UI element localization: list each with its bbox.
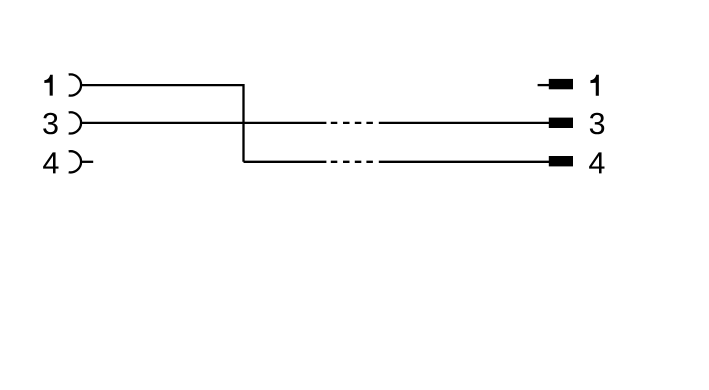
wire: pin 3 row solid segment to right terminal 3 bbox=[379, 122, 550, 124]
label "1" left (drawn glyph) bbox=[44, 75, 52, 96]
label "4" left bbox=[43, 152, 58, 173]
terminal pin 4 (right connector, male blade) bbox=[549, 156, 573, 166]
label "3" left bbox=[43, 113, 57, 135]
wire: left pin 3 solid segment before cable break bbox=[81, 122, 326, 124]
wire: pin 4 row cable-break dashes bbox=[331, 161, 373, 163]
label "1" right (drawn glyph) bbox=[590, 75, 598, 96]
terminal pin 1 (right connector, male blade) bbox=[549, 79, 573, 89]
label "3" right bbox=[590, 113, 604, 135]
wire: left pin 1 horizontal segment bbox=[81, 84, 243, 86]
wire: pin 3 row cable-break dashes bbox=[331, 122, 373, 124]
wire: pin 4 row solid segment before cable break bbox=[244, 161, 327, 163]
wire: left pin 4 open stub bbox=[81, 161, 93, 163]
socket contact 3 (left connector, female arc) bbox=[69, 112, 81, 133]
socket contact 1 (left connector, female arc) bbox=[69, 74, 81, 95]
label "4" right bbox=[589, 152, 604, 173]
socket contact 4 (left connector, female arc) bbox=[69, 151, 81, 172]
wire: right pin 1 open stub bbox=[538, 84, 550, 86]
wire: vertical jog from pin 1 row down to pin 4 row bbox=[242, 84, 244, 162]
terminal pin 3 (right connector, male blade) bbox=[549, 118, 573, 128]
wire: pin 4 row solid segment to right terminal 4 bbox=[379, 161, 550, 163]
